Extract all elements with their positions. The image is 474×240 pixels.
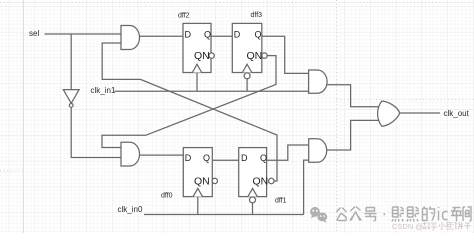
wire AND A2 output to dff0.D (140, 154, 184, 156)
svg-text:QN: QN (194, 175, 210, 187)
watermark text 公众号 · 熊熊的ic车间 (stylized) (337, 207, 472, 222)
wire dff3 clock stub (246, 79, 248, 92)
svg-text:dff3: dff3 (251, 12, 263, 19)
char 干 (464, 223, 471, 230)
sheet boundary dotted right horizontal (337, 99, 474, 101)
dff3 clock triangle (242, 64, 251, 72)
wire net B dff3.QN feedback to AND A2 upper input (102, 56, 276, 148)
dff1 clock triangle (248, 188, 257, 196)
wire clk_in0 net (144, 214, 304, 216)
dff0 QN bubble (212, 178, 217, 183)
and-gate A1 top-left (121, 26, 140, 50)
watermark subtext CSDN @数字小熊饼干 (stylized) (392, 222, 423, 231)
svg-text:Q: Q (260, 153, 267, 163)
and-gate A2 bottom-left (121, 142, 140, 166)
char 熊 (447, 222, 454, 230)
char 的 (423, 207, 435, 221)
svg-text:dff1: dff1 (275, 197, 287, 204)
sheet boundary dotted top (0, 2, 474, 4)
wire AND A1 output to dff2.D (140, 35, 184, 37)
svg-text:clk_in0: clk_in0 (118, 205, 143, 214)
dff3 flip-flop body (232, 23, 261, 72)
dff2 flip-flop body (183, 23, 211, 72)
dff1 QN bubble (269, 178, 274, 183)
svg-text:dff2: dff2 (178, 12, 190, 19)
svg-text:QN: QN (194, 50, 210, 62)
svg-text:QN: QN (253, 175, 269, 187)
interpunct (384, 213, 386, 215)
wire dff1 clock stub (252, 203, 254, 215)
svg-text:D: D (241, 153, 248, 163)
dff3 clock bubble (negedge) (244, 73, 250, 79)
wire AND A3 output to OR gate upper input (327, 85, 385, 107)
char c (443, 211, 448, 219)
svg-text:Q: Q (203, 153, 210, 163)
char 间 (463, 207, 471, 221)
svg-text:clk_in1: clk_in1 (91, 86, 116, 95)
dff3 QN bubble (262, 53, 267, 58)
svg-text:dff0: dff0 (161, 192, 173, 199)
dff0 clock triangle (193, 188, 202, 196)
svg-text:sel: sel (29, 29, 39, 38)
wire net A dff1.QN feedback to AND A1 lower input (102, 43, 277, 181)
char 饼 (455, 222, 463, 229)
wire dff1.Q to AND A4 upper input (267, 145, 309, 160)
char 众 (350, 207, 362, 221)
svg-text:QN: QN (247, 50, 263, 62)
wire sel branch to inverter (70, 34, 72, 90)
svg-text:D: D (185, 29, 192, 39)
svg-text:D: D (234, 29, 241, 39)
wire OR gate output to clk_out (400, 112, 440, 114)
svg-text:CSDN @: CSDN @ (392, 222, 423, 231)
svg-text:D: D (185, 153, 192, 163)
svg-text:clk_out: clk_out (444, 109, 470, 118)
wire dff3.Q to AND A3 upper input (262, 36, 309, 73)
sheet boundary dotted right vertical (336, 0, 338, 233)
char 号 (365, 208, 377, 221)
and-gate A3 top-right (309, 70, 327, 93)
char i (438, 207, 440, 221)
inverter U5 (sel inversion) (63, 90, 79, 104)
dff2 clock triangle (192, 64, 201, 72)
wire dff2 clock stub (196, 73, 198, 92)
sheet boundary dotted left vertical (22, 0, 24, 233)
wire dff0.Q to dff1.D (212, 159, 238, 161)
svg-text:Q: Q (255, 29, 262, 39)
char 熊 1 (392, 207, 404, 222)
and-gate A4 bottom-right (309, 139, 327, 163)
dff0 flip-flop body (183, 148, 212, 197)
sheet boundary dotted bottom-left horizontal (0, 170, 23, 172)
wire dff0 clock stub (197, 197, 199, 215)
char 公 (337, 208, 347, 221)
dff1 flip-flop body (239, 148, 267, 197)
wire dff2.Q to dff3.D (211, 35, 232, 37)
wire sel input (45, 33, 122, 35)
char 车 (451, 208, 462, 222)
wire inverter output to AND A2 lower input (71, 107, 121, 157)
wire clk_in1 net (115, 90, 309, 92)
char 小 (439, 222, 446, 230)
wire clk_in0 riser to AND A4 lower input (304, 160, 309, 214)
svg-text:Q: Q (204, 29, 211, 39)
or-gate O1 output stage (378, 101, 400, 126)
char 字 (431, 223, 437, 230)
wire AND A4 output to OR gate lower input (327, 120, 386, 150)
char 数 (423, 222, 431, 229)
char 熊 2 (407, 207, 419, 222)
dff1 clock bubble (negedge) (250, 197, 256, 203)
watermark wechat icon (310, 207, 327, 223)
dff2 QN bubble (209, 53, 214, 58)
